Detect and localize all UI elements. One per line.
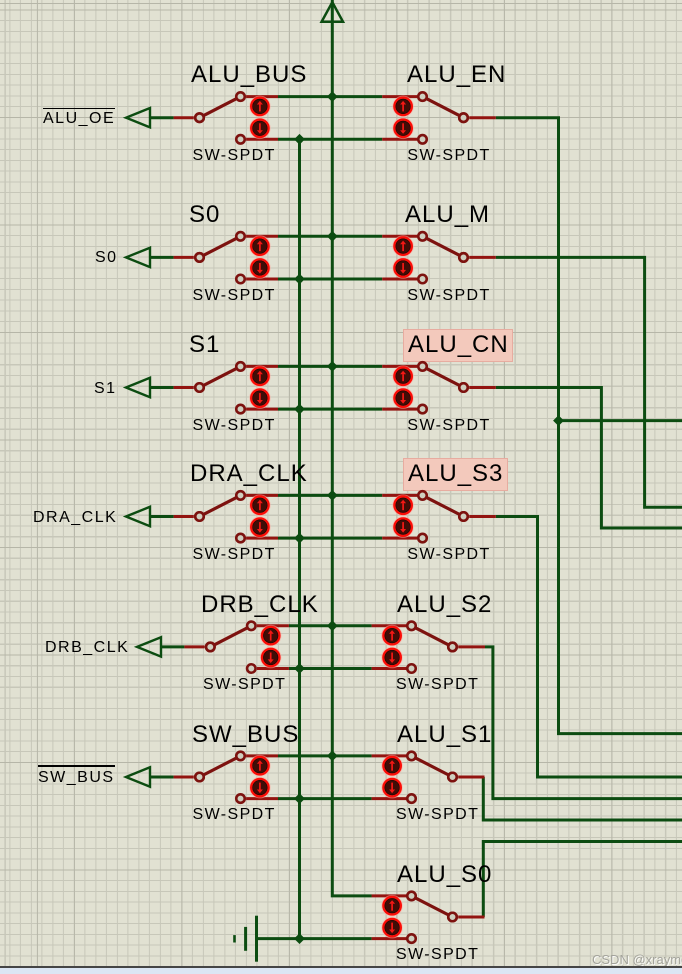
pin DRA_CLK top throw [246,494,278,497]
switch ALU_BUS lever [200,97,241,118]
window edge bar [0,966,682,968]
switch S1 top throw [236,362,245,371]
switch ALU_M pole [459,253,468,262]
pin ALU_BUS bottom throw [246,138,278,141]
wire DRB_CLK top throw to ALU_S2 top throw [289,624,372,627]
switch S1 bottom throw [236,405,245,414]
wire ALU_BUS bottom throw to ALU_EN bottom throw [278,138,382,141]
switch ALU_BUS pole [195,113,204,122]
pin ALU_EN bottom throw [382,138,417,141]
switch ALU_S3 down actuator [393,517,413,537]
switch DRA_CLK bottom throw [236,534,245,543]
switch ALU_S2 lever [412,626,453,647]
junction row 1 bottom on ground rail [295,135,304,144]
wire DRA_CLK bottom throw to ALU_S3 bottom throw [278,537,382,540]
switch DRA_CLK down actuator [250,517,270,537]
switch ALU_M lever [423,236,464,257]
switch ALU_S0 bottom throw [407,934,416,943]
switch ALU_BUS top throw [236,92,245,101]
junction ground wire [295,934,304,943]
pin DRA_CLK pole [174,515,194,518]
switch ALU_CN top throw [418,362,427,371]
junction row 1 top on power rail [328,92,337,101]
value label SW-SPDT [396,947,479,963]
pin ALU_S3 top throw [382,494,417,497]
junction row 6 bottom on ground rail [295,794,304,803]
switch ALU_EN up actuator [393,96,413,116]
pin S1 bottom throw [246,408,278,411]
label S1 [189,333,220,357]
junction row 6 top on power rail [328,751,337,760]
junction right bus node [554,416,563,425]
switch ALU_BUS bottom throw [236,135,245,144]
pin ALU_S3 pole [469,515,496,518]
switch S0 lever [200,236,241,257]
pin ALU_M bottom throw [382,278,417,281]
junction row 3 bottom on ground rail [295,404,304,413]
terminal label DRB_CLK [45,640,129,656]
switch ALU_S3 pole [459,512,468,521]
pin ALU_EN top throw [382,95,417,98]
pin ALU_S1 pole [458,776,484,779]
switch S0 top throw [236,232,245,241]
value label SW-SPDT [407,418,490,434]
junction row 5 bottom on ground rail [295,664,304,673]
switch ALU_EN down actuator [393,118,413,138]
switch SW_BUS top throw [236,752,245,761]
value label SW-SPDT [407,288,490,304]
switch ALU_CN down actuator [393,388,413,408]
label DRB_CLK [201,593,319,617]
label ALU_M [405,203,490,227]
switch S0 down actuator [250,258,270,278]
value label SW-SPDT [193,547,276,563]
pin DRA_CLK bottom throw [246,537,278,540]
terminal label DRA_CLK [33,510,117,526]
junction row 3 top on power rail [328,362,337,371]
wire DRB_CLK bottom throw to ALU_S2 bottom throw [289,667,372,670]
terminal label SW_BUS [38,770,115,786]
wire terminal to DRB_CLK pole [161,645,184,648]
value label SW-SPDT [396,677,479,693]
switch ALU_S1 pole [448,773,457,782]
wire terminal to ALU_BUS pole [150,116,174,119]
value label SW-SPDT [193,807,276,823]
pin S0 pole [174,256,194,259]
label ALU_S1 [397,723,492,747]
pin ALU_S1 bottom throw [372,797,407,800]
terminal S0 [126,248,150,267]
switch ALU_S1 lever [412,756,453,777]
switch DRB_CLK up actuator [261,626,281,646]
pin ALU_BUS pole [174,116,194,119]
wire terminal to DRA_CLK pole [150,515,174,518]
switch S0 pole [195,253,204,262]
switch ALU_S2 down actuator [382,647,402,667]
highlight box ALU_CN [403,329,513,363]
pin S0 top throw [246,235,278,238]
switch DRA_CLK lever [200,495,241,516]
pin SW_BUS bottom throw [246,797,278,800]
wire ALU_BUS top throw to ALU_EN top throw [278,95,382,98]
switch ALU_S0 down actuator [382,918,402,938]
wire ALU_EN pole to right bus [496,118,682,734]
wire ground to ALU_S0 bottom throw [257,937,372,940]
power terminal arrow [322,2,343,22]
pin ALU_S2 bottom throw [372,667,407,670]
switch ALU_S0 top throw [407,892,416,901]
switch DRA_CLK up actuator [250,495,270,515]
switch SW_BUS up actuator [250,756,270,776]
pin S1 pole [174,386,194,389]
switch ALU_EN lever [423,97,464,118]
switch S1 pole [195,383,204,392]
power rail vertical wire [332,0,372,896]
switch ALU_S3 top throw [418,491,427,500]
pin ALU_S0 bottom throw [372,937,407,940]
pin ALU_CN bottom throw [382,408,417,411]
junction row 5 top on power rail [328,621,337,630]
overline ALU_OE (active low) [43,108,115,110]
junction row 4 top on power rail [328,491,337,500]
switch ALU_CN lever [423,366,464,387]
switch ALU_EN bottom throw [418,135,427,144]
pin ALU_M top throw [382,235,417,238]
label SW_BUS [192,723,299,747]
wire terminal to S1 pole [150,386,174,389]
switch ALU_EN pole [459,113,468,122]
terminal label ALU_OE [43,111,115,127]
label ALU_S2 [397,593,492,617]
terminal DRA_CLK [126,507,150,526]
pin S1 top throw [246,365,278,368]
wire S0 top throw to ALU_M top throw [278,235,382,238]
switch ALU_S1 up actuator [382,756,402,776]
value label SW-SPDT [193,148,276,164]
ground rail vertical wire [298,139,301,938]
wire ALU_M pole to right edge [496,257,682,507]
switch ALU_S1 bottom throw [407,794,416,803]
value label SW-SPDT [407,148,490,164]
terminal S1 [126,378,150,397]
terminal label S1 [94,381,117,397]
switch ALU_S1 top throw [407,752,416,761]
pin ALU_S2 pole [458,645,485,648]
switch ALU_M up actuator [393,236,413,256]
switch ALU_S3 up actuator [393,495,413,515]
switch S0 up actuator [250,236,270,256]
wire SW_BUS bottom throw to ALU_S1 bottom throw [278,797,372,800]
switch ALU_S2 up actuator [382,626,402,646]
switch ALU_CN bottom throw [418,405,427,414]
wire S1 bottom throw to ALU_CN bottom throw [278,408,382,411]
junction row 2 bottom on ground rail [295,274,304,283]
value label SW-SPDT [193,418,276,434]
value label SW-SPDT [396,807,479,823]
wire ALU_S0 pole to right edge [483,842,682,918]
pin SW_BUS top throw [246,754,278,757]
wire ALU_CN pole to right edge [496,388,682,529]
value label SW-SPDT [407,547,490,563]
switch ALU_S0 lever [412,896,453,917]
value label SW-SPDT [193,288,276,304]
overline SW_BUS (active low) [38,765,115,767]
switch ALU_S2 pole [448,643,457,652]
switch ALU_S0 pole [448,913,457,922]
label DRA_CLK [190,462,308,486]
wire ALU_S1 pole to right edge [483,777,682,820]
pin ALU_S0 top throw [372,894,407,897]
label ALU_S3 [408,462,503,486]
switch DRB_CLK top throw [247,622,256,631]
switch SW_BUS down actuator [250,778,270,798]
pin ALU_M pole [469,256,496,259]
switch DRA_CLK pole [195,512,204,521]
pin ALU_S0 pole [458,916,484,919]
switch ALU_S3 lever [423,495,464,516]
label ALU_CN [408,333,509,357]
switch ALU_EN top throw [418,92,427,101]
label ALU_EN [407,63,506,87]
switch S1 down actuator [250,388,270,408]
wire SW_BUS top throw to ALU_S1 top throw [278,754,372,757]
switch ALU_CN pole [459,383,468,392]
watermark [592,952,682,967]
switch ALU_S3 bottom throw [418,534,427,543]
switch DRB_CLK down actuator [261,647,281,667]
value label SW-SPDT [203,677,286,693]
switch S1 up actuator [250,366,270,386]
switch ALU_M top throw [418,232,427,241]
switch ALU_BUS down actuator [250,118,270,138]
wire DRA_CLK top throw to ALU_S3 top throw [278,494,382,497]
switch DRB_CLK bottom throw [247,664,256,673]
switch ALU_M bottom throw [418,275,427,284]
junction row 2 top on power rail [328,232,337,241]
terminal ALU_OE [126,108,150,127]
terminal SW_BUS [126,767,150,786]
terminal label S0 [95,250,118,266]
terminal DRB_CLK [137,637,161,656]
switch DRB_CLK lever [210,626,251,647]
switch ALU_M down actuator [393,258,413,278]
switch ALU_S2 top throw [407,622,416,631]
switch SW_BUS pole [195,773,204,782]
pin ALU_CN pole [469,386,496,389]
junction row 4 bottom on ground rail [295,533,304,542]
switch SW_BUS lever [200,756,241,777]
switch DRB_CLK pole [206,643,215,652]
highlight box ALU_S3 [403,458,508,491]
switch S0 bottom throw [236,275,245,284]
pin DRB_CLK pole [184,645,204,648]
switch ALU_S1 down actuator [382,778,402,798]
wire S0 bottom throw to ALU_M bottom throw [278,278,382,281]
wire terminal to SW_BUS pole [150,776,174,779]
wire branch from node to right edge [559,419,682,422]
switch ALU_S2 bottom throw [407,664,416,673]
wire S1 top throw to ALU_CN top throw [278,365,382,368]
switch DRA_CLK top throw [236,491,245,500]
switch ALU_BUS up actuator [250,96,270,116]
pin ALU_S1 top throw [372,754,407,757]
label ALU_BUS [191,63,307,87]
pin ALU_EN pole [469,116,496,119]
label S0 [189,203,220,227]
pin S0 bottom throw [246,278,278,281]
wire terminal to S0 pole [150,256,174,259]
pin ALU_BUS top throw [246,95,278,98]
pin ALU_S3 bottom throw [382,537,417,540]
switch ALU_S0 up actuator [382,896,402,916]
ground symbol [235,916,257,962]
pin SW_BUS pole [174,776,194,779]
label ALU_S0 [397,863,492,887]
switch SW_BUS bottom throw [236,794,245,803]
switch S1 lever [200,366,241,387]
switch ALU_CN up actuator [393,366,413,386]
pin DRB_CLK bottom throw [257,667,289,670]
pin ALU_CN top throw [382,365,417,368]
wire ALU_S2 pole to right edge [485,647,682,799]
pin ALU_S2 top throw [372,624,407,627]
pin DRB_CLK top throw [257,624,289,627]
wire ALU_S3 pole to right edge [496,517,682,778]
